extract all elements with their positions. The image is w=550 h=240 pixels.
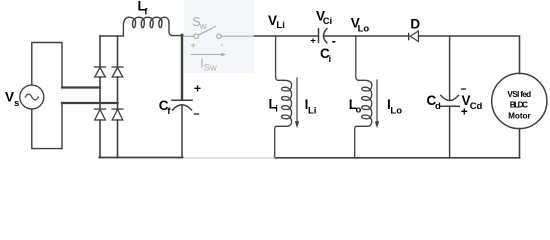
svg-text:+: + [194,82,201,96]
svg-text:Lo: Lo [358,23,370,34]
svg-text:Ci: Ci [323,16,333,27]
svg-text:f: f [167,106,171,117]
svg-text:o: o [356,105,362,116]
svg-text:V: V [5,90,14,105]
svg-text:d: d [435,101,441,112]
svg-text:-: - [332,34,336,48]
svg-text:Cd: Cd [470,101,483,112]
svg-text:s: s [14,98,19,109]
svg-text:i: i [275,104,278,115]
svg-text:−: − [193,109,199,121]
svg-text:D: D [410,16,420,31]
svg-text:Motor: Motor [508,112,531,121]
svg-text:BLDC: BLDC [510,100,528,109]
svg-text:+: + [190,41,196,52]
svg-text:Li: Li [276,20,284,31]
svg-text:w: w [199,21,207,32]
svg-text:+: + [310,36,316,47]
svg-text:-: - [220,40,223,51]
svg-text:f: f [144,7,148,18]
svg-text:Lo: Lo [390,106,402,117]
svg-text:i: i [329,54,332,65]
svg-text:Li: Li [308,106,316,117]
svg-text:VSI fed: VSI fed [507,90,531,99]
svg-text:Sw: Sw [204,63,217,74]
